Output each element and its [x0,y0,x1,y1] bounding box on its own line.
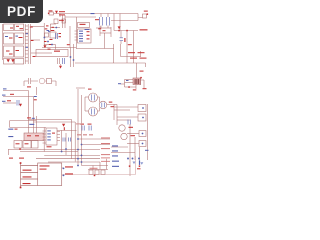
wire stub y40 [31,39,40,41]
label blue y124 [29,124,34,125]
wire y120 [10,120,37,122]
label D5s [133,89,137,90]
optocoupler Q1 body [89,93,98,102]
wire Q2 to Q3 [98,108,100,112]
junction dot J4 [142,107,144,109]
wire bus x28 [28,91,30,134]
wire Q1 lead [85,96,89,98]
resistor R20 box [89,170,93,175]
wire stub outA [62,167,64,169]
label x103 [103,30,106,31]
wire y44 link [44,44,55,46]
label low1 [9,158,13,159]
wire rail y30 [114,30,138,32]
wire vert pair a [62,15,64,28]
label outB [65,173,73,174]
wire y110 out [114,109,130,111]
wire y20 rail [111,20,138,22]
wire stub outB [62,174,64,176]
connector J5 box [138,114,146,121]
label q4r [129,127,134,128]
wire drop x106 [106,159,108,170]
label rail30 [140,29,148,30]
transistor Q3 body [99,101,107,109]
label secv [67,44,70,45]
wire block feed [136,63,138,78]
resistor bank RB2 box [23,141,31,149]
wire R3 lead [45,81,56,86]
label blue x34 [34,96,37,97]
label cl47 [50,39,53,40]
connector P1 box [38,163,62,186]
wire right edge [147,104,149,160]
label X1v [10,28,13,29]
label blue b161 [112,161,119,162]
label q5r [131,135,136,136]
wire y143 out [127,143,139,145]
wire stub y53 [31,52,36,54]
label blue b166 [112,166,119,167]
wire vertical x70b [70,48,72,68]
wire y120 out [117,119,130,121]
inductor L1 ring [39,78,45,84]
wire y127 [10,127,46,129]
label x36r [34,99,37,100]
junction dot u2a [65,148,67,150]
wire y133 out [127,133,139,135]
ground tri C6 [19,104,22,107]
wire drop x93 [92,166,94,170]
wire bus x36 [35,116,37,133]
wire stub y26 [31,26,45,28]
label blue net1 [3,88,7,89]
resistor bank RB3 box [32,141,39,149]
resistor R21 box [95,170,99,175]
label U1r3 [87,38,90,39]
label VA2 [59,14,65,15]
wire y24 link [50,23,56,25]
fuse F3 divider [36,52,52,54]
capacitor C6 plates [17,100,19,106]
capacitor C4 stem [120,31,122,45]
label BR2v [16,50,20,51]
wire C5 leads [24,81,38,86]
junction dot u2b [61,151,63,153]
junction dot led c [138,158,140,160]
wire net2 y96 [3,96,34,98]
label VA1 [59,11,65,12]
wire rail y48 [76,48,114,50]
wire Q2 lead [85,110,89,112]
label rr3 [130,58,137,59]
label P1b [40,169,47,170]
inline comp box VP [62,19,66,23]
label cl1 [49,44,52,45]
wire left input rail [1,24,3,60]
label blue K1 [8,129,13,130]
wire vertical x55 [55,45,57,50]
label y48b [48,49,51,50]
label q3a [109,102,113,103]
junction dot J7 [142,143,144,145]
node dot vp [62,20,63,21]
junction dot rw1 [77,138,79,140]
wire comp rail y169 [88,169,108,171]
wire x136 stub [135,85,137,90]
wire y117 out [117,116,138,118]
wire mid rail y47 [42,47,76,49]
node dot led1 [129,165,131,167]
wire link y56 [121,56,142,58]
capacitor C8 bars [63,138,65,142]
junction dot cl5 [51,44,53,46]
resistor R22 box [101,170,105,175]
connector J4 box [138,105,146,112]
stem bar U2 [64,127,65,130]
label cl46 [46,25,49,26]
label blue strip2 [26,47,28,48]
wire bus x81 [81,95,83,166]
junction dot sec2 [73,59,75,61]
terminal X1 box [4,24,14,31]
label blue r145 [112,145,118,146]
wire vert x61 [61,130,63,151]
zener Z3 body [139,160,140,165]
label blue y118 [32,118,35,119]
fuse F3 box [36,50,68,57]
junction dot P1a [63,168,65,170]
label FL2v [19,37,23,38]
label U1r1 [87,31,90,32]
label pink c [89,134,93,135]
ground tri L2 [11,59,14,62]
label F3v [54,51,60,52]
junction dot J6 [142,133,144,135]
capacitor C2 plates [100,17,103,26]
relay K1 filled box [24,133,44,141]
label row2r [101,142,110,145]
junction dot rw7 [77,165,79,167]
wire y87 under D5 [125,86,137,88]
wire y84 left stub [121,83,125,85]
junction dot led a [127,158,129,160]
terminal strip rungs [25,26,28,61]
label net2r [10,94,14,95]
label P1a [40,165,50,166]
pin rows U1 [79,31,83,32]
wire row y139 [78,138,110,140]
diode block D5 filled box [133,78,141,85]
PDF badge [0,0,43,23]
wire rail y158 [36,158,100,160]
label U2r [52,133,55,134]
label r155b [101,153,110,156]
label c10 [80,124,84,125]
wire corner x71 [29,120,72,159]
wire x140 right stub [140,78,142,85]
wire vertical x70 [69,26,71,48]
label FL1v [9,38,13,39]
junction dot led b [132,158,134,160]
wire net3 y103 [3,102,16,104]
relay RL1 box [49,12,54,15]
wire vertical x73 [73,44,75,67]
label K1a [27,135,31,136]
label pin3t [23,176,32,177]
wire bus x44 [43,128,45,152]
wire vertical x120 [119,14,121,31]
label S1v [59,20,63,21]
node dot ra [118,30,120,32]
label RL1t [49,10,53,11]
label U1r2 [87,35,90,36]
wire y79 to D5 [125,79,134,81]
wire vertical x133 [133,31,135,64]
wire y27 link [50,27,60,29]
wire top rail [54,13,139,15]
wire hook x60 [59,14,61,18]
wire top marks y88 [76,87,85,89]
cap bank CB2 box [15,59,24,65]
wire rail2 [65,16,96,18]
wire pin3 [21,178,38,180]
label x99 [98,28,101,29]
wire y107 out [114,106,138,108]
capacitor C2 leads [100,14,102,29]
resistor bar R5 [124,38,125,42]
node dot RL1 [48,13,49,14]
label blue tr [145,150,149,151]
wire bus x78 [77,89,79,166]
label K1r [15,129,18,130]
label y120r [27,117,31,118]
snubber S1 box [54,19,58,24]
wire corner x138 [138,14,143,21]
relay RL2 box [143,14,147,18]
wire drop x113 [113,44,115,63]
transformer T1 gnd stem [60,64,62,66]
transistor Q4 body [119,125,125,131]
transformer T1 primary bars [58,58,60,64]
ground tri cl [44,45,47,48]
label J3t [144,11,148,12]
label cc1b [59,36,62,37]
pin stubs U1 [75,31,78,40]
connector J7 box [139,141,146,147]
resistor R2 box [45,33,49,37]
junction dot P1b [63,175,65,177]
wire rail y63 [75,62,146,64]
resistor R3 box [47,79,52,84]
wire rail y155 [44,154,100,156]
label pin4t [23,183,31,184]
node bus P1 [20,163,22,188]
junction dot cl3 [55,27,57,29]
transformer T1 sec bars [63,58,65,64]
wire y33 link [100,32,111,34]
wire x114 drop [113,105,115,121]
label X2v [16,26,19,27]
cap bank CB1 box [4,59,14,65]
wire rail y161 [48,161,100,163]
junction dot cl1 [44,37,46,39]
zener tri b [140,162,143,165]
junction dot rw5 [77,158,79,160]
wire x130 bottom [129,153,131,177]
capacitor CC1 bars [56,33,58,39]
label rr4 [140,58,147,59]
wire vertical x76 [76,17,78,49]
controller U1 body box [78,29,92,43]
label row3r [101,147,110,150]
label strip2 [31,40,34,41]
label strip3 [33,56,36,57]
junction dot rw4 [81,155,83,157]
label blue top [91,13,95,14]
pin rows U2 [47,130,51,131]
wire pin4 [21,184,38,186]
junction dot rw3 [77,149,79,151]
label row1r [101,137,110,140]
zener tri a [133,162,136,165]
diode D5 bars [135,79,136,84]
wire vertical x114 [113,14,115,31]
label rr1 [128,52,135,53]
terminal X2 box [15,24,24,31]
label cl44 [44,41,47,42]
wire row y165 [82,165,109,167]
label RV1v [51,30,55,31]
label blue net3 [2,101,6,102]
transistor Q5 body [121,133,127,139]
capacitor C9 bars [69,138,71,142]
label pink sheet [76,123,82,124]
bridge BR1 box [4,46,14,57]
wire vertical x127 [126,31,128,64]
junction dot cl4 [48,31,50,33]
varistor RV1 box [50,32,56,38]
capacitor C3 leads [107,14,109,29]
label U2b [47,146,52,147]
wire y130 right of U2 [57,129,77,131]
capacitor C4 plates [120,38,124,41]
label K1b [35,135,39,136]
optocoupler Q1 bars [92,95,95,101]
wire drop x140 [140,51,142,57]
wire x144 hook [141,80,145,88]
wire pin2 [21,172,38,174]
wire Q1 to Q3 [98,97,100,103]
power tri VA [55,11,58,14]
wire y82 to D5 [125,82,134,84]
label x127c [128,44,132,45]
wire cap bottoms [96,27,111,29]
wire corner x9 [9,121,11,128]
label c11 [88,124,92,125]
wire x124 stub [124,80,126,88]
label strip1 [30,27,33,28]
wire x130 drop [129,124,131,153]
label r162 [101,160,110,163]
label q3b [111,106,115,107]
ground tri T1 [59,66,62,69]
junction dot rw6 [81,161,83,163]
label pin2t [23,170,32,171]
wire x135 drop [134,137,136,160]
wire y147 [111,146,128,148]
label blue K2 [8,136,13,137]
label blue D5b [126,80,129,81]
label c2t [95,19,99,20]
filter FL1 box [4,33,14,44]
power tri U2 [62,124,65,127]
bridge BR2 box [15,46,24,57]
label low2 [19,158,24,159]
node dot D5t [140,77,142,79]
wire rail y149 [9,149,101,151]
label outA [65,166,73,167]
wire rail y151 [20,151,78,153]
node dot gnd94 [94,175,96,177]
wire pin1 [21,165,38,167]
capacitor C11 bars [89,126,91,131]
label blue net2 [2,95,6,96]
wire corner x75 [34,122,76,162]
power tri x119 [118,26,121,29]
label rb2v [25,143,29,144]
node dot D5g [128,86,130,88]
junction dot J5 [142,117,144,119]
junction dot sec1 [70,56,72,58]
label cc1a [59,33,62,34]
wire vertical x111 [110,27,112,37]
label opt [88,89,92,90]
label X2w [20,28,24,29]
connector J6 box [139,131,146,137]
wire net1 y90 [3,90,29,92]
wire stub x36 upper [36,87,38,95]
node dot busT [20,162,22,164]
capacitor C3 plates [107,17,110,26]
controller U1 head box [78,23,90,28]
wire vertical x104 [104,33,106,49]
wire Q3 out [107,105,117,126]
filter FL2 box [15,33,24,44]
resistor bank RB1 box [14,141,22,149]
wire x139 bottom [139,147,141,160]
label blue D5 [118,83,121,84]
capacitor C10 bars [82,126,84,131]
optocoupler Q2 bars [92,109,95,115]
capacitor C7 bars [128,120,130,125]
label blue U1in [85,29,90,30]
wire vert x66 [65,133,67,155]
label x44m [45,28,48,29]
label BR1w [9,54,13,55]
label rb1v [16,143,20,144]
junction dot cl2 [47,41,49,43]
wire vertical x30 [30,24,32,64]
label blue cl [47,30,50,31]
label row boxt [90,167,98,170]
label blue strip1 [26,33,28,34]
label rr2 [138,52,145,53]
wire bus x33 [33,97,35,141]
capacitor C5 bars [29,78,31,84]
wire drop x100 [99,162,101,170]
node dot led2 [139,165,141,167]
label pink a [77,134,81,135]
